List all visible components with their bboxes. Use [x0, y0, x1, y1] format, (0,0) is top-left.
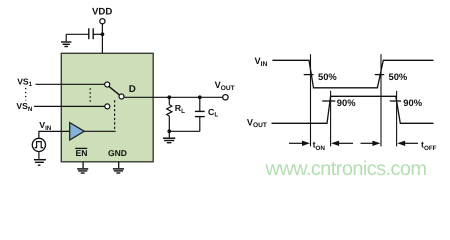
svg-text:tOFF: tOFF	[421, 140, 437, 152]
svg-text:VSN: VSN	[16, 101, 32, 113]
svg-text:90%: 90%	[337, 97, 356, 108]
svg-text:www.cntronics.com: www.cntronics.com	[265, 158, 427, 180]
svg-text:VIN: VIN	[255, 56, 268, 68]
svg-text:90%: 90%	[403, 97, 422, 108]
svg-text:VS1: VS1	[17, 76, 32, 88]
svg-text:EN: EN	[76, 148, 88, 158]
svg-text:50%: 50%	[389, 71, 408, 82]
svg-text:VOUT: VOUT	[215, 80, 235, 92]
svg-text:50%: 50%	[318, 71, 337, 82]
svg-text:RL: RL	[175, 103, 185, 115]
svg-text:CL: CL	[208, 107, 218, 119]
svg-text:VIN: VIN	[39, 120, 52, 132]
svg-text:D: D	[129, 84, 136, 95]
svg-text:tON: tON	[313, 140, 326, 152]
svg-text:GND: GND	[108, 148, 127, 158]
svg-text:VOUT: VOUT	[247, 117, 267, 129]
svg-text:VDD: VDD	[92, 7, 112, 18]
